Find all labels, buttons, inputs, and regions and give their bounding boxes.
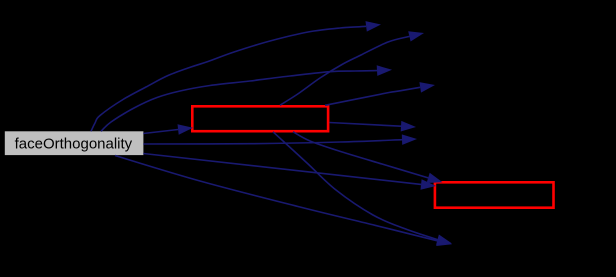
svg-text:faceOrthogonality: faceOrthogonality: [15, 136, 133, 153]
